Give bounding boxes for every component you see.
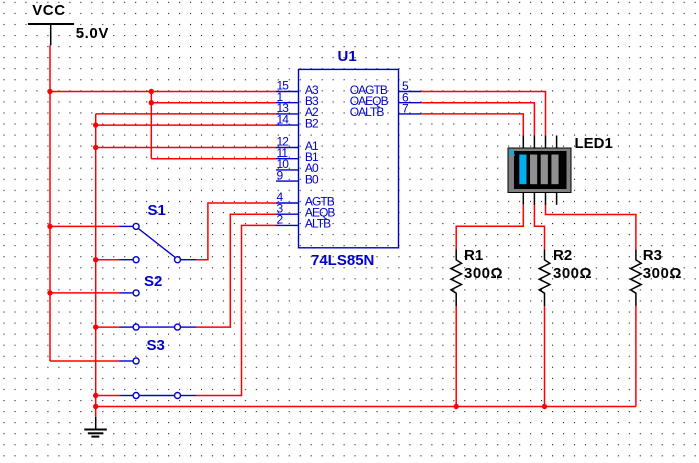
resistor R3 [631,247,682,306]
svg-text:300Ω: 300Ω [643,265,682,282]
svg-text:VCC: VCC [32,2,65,19]
svg-text:R1: R1 [464,247,483,264]
wire rail1 VCC vertical [49,45,51,361]
switch S1 [120,202,197,263]
wire LED lead3 to R3 [546,204,636,250]
svg-text:R3: R3 [643,247,662,264]
LED segment 2 [530,155,537,185]
U1 right pin stubs [399,92,422,114]
svg-text:14: 14 [277,112,290,126]
LED1 bargraph [508,135,613,205]
svg-text:B0: B0 [305,172,319,186]
wire B1 pin11 [151,158,276,160]
svg-text:5.0V: 5.0V [76,25,109,42]
ground [84,417,107,437]
wire LED lead1 to R1 [456,205,523,250]
LED segment 3 [541,155,548,185]
wire S3 upper feed [50,360,120,362]
wire A2 pin13 [96,113,276,115]
svg-text:S2: S2 [144,273,162,290]
wire pin7 to LED lead1 [421,114,523,136]
wire rail2 [95,114,97,417]
wire LED lead2 to R2 [534,204,544,250]
wire pin5 to LED lead3 [421,92,546,136]
svg-text:ALTB: ALTB [305,217,331,231]
wire R3 bottom [635,306,637,407]
svg-text:A: A [508,148,515,159]
wire AGTB pin4 to S1 pole [196,203,276,260]
svg-text:LED1: LED1 [575,135,613,152]
LED segment 1 lit [519,155,526,185]
resistor R1 [451,247,503,306]
wire vertical V2 [150,92,152,159]
VCC symbol [28,2,109,45]
svg-text:74LS85N: 74LS85N [311,252,374,269]
wire S2 lower feed [96,326,120,328]
wire S1 upper feed [50,225,120,227]
LED body [508,148,571,193]
wire ALTB pin2 to S3 pole [196,225,276,395]
wire A3 pin15 [50,91,276,93]
resistor R2 [539,247,592,306]
svg-text:B2: B2 [305,116,319,130]
wire R2 bottom [544,306,546,407]
svg-text:R2: R2 [553,247,572,264]
svg-text:OALTB: OALTB [350,105,385,119]
svg-text:S1: S1 [148,202,166,219]
wire S3 lower feed [96,395,120,397]
svg-text:S3: S3 [147,337,165,354]
LED top leads [523,136,556,149]
wire S1 lower feed [96,259,120,261]
wire R1 bottom [455,306,457,407]
wire S2 upper feed [50,292,120,294]
wire B2 pin14 [96,124,276,126]
svg-text:300Ω: 300Ω [464,265,503,282]
LED bottom leads [523,193,556,205]
svg-text:U1: U1 [338,48,357,65]
wire pin6 to LED lead2 [421,103,534,136]
U1 pin numbers [277,79,410,227]
U1 pin names [305,83,389,231]
wire AEQB pin3 to S2 pole [196,214,276,327]
wire bottom ground bus [96,406,636,408]
LED segment 4 [551,155,558,185]
op-amp U1 74LS85N comparator [299,48,399,269]
U1 left pin stubs [276,92,299,226]
wire B3 pin1 [151,102,276,104]
wire A1 pin12 [96,147,276,149]
switch S2 [120,273,197,330]
switch S3 [120,337,197,399]
svg-text:300Ω: 300Ω [553,265,592,282]
